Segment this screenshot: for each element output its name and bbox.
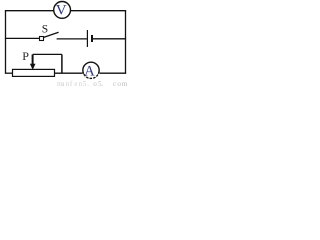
svg-text:A: A — [84, 64, 95, 80]
battery short plate (negative) — [91, 35, 93, 42]
switch S blade — [44, 32, 59, 37]
wire middle center (switch to battery) — [57, 38, 87, 40]
svg-text:V: V — [56, 3, 67, 19]
wire bottom middle (rheostat to ammeter) — [55, 72, 83, 74]
wire top right (voltmeter to right vertical) — [71, 10, 126, 12]
wire top left (to voltmeter) — [5, 10, 54, 12]
wire middle left (left vertical to switch) — [5, 37, 40, 39]
wire bottom right (ammeter to right vertical) — [100, 72, 127, 74]
wire wiper vertical drop — [61, 54, 63, 73]
wire middle right (battery to right vertical) — [93, 38, 127, 40]
battery long plate (positive) — [86, 30, 88, 47]
ammeter U2 circle — [83, 62, 99, 78]
wire wiper horizontal — [33, 53, 62, 55]
rheostat wiper arrowhead — [30, 64, 36, 70]
wire left vertical — [5, 10, 7, 73]
rheostat P body box — [13, 69, 55, 76]
voltmeter U1 circle — [54, 2, 71, 19]
ammeter circle bottom arc watermark gaps — [84, 74, 99, 79]
rheostat wiper arrow stem — [32, 55, 34, 66]
svg-text:S: S — [42, 24, 48, 36]
svg-text:P: P — [22, 49, 29, 63]
wire right vertical — [125, 10, 127, 73]
wire bottom left (left vertical to rheostat) — [5, 72, 13, 74]
switch S terminal square — [40, 37, 44, 41]
